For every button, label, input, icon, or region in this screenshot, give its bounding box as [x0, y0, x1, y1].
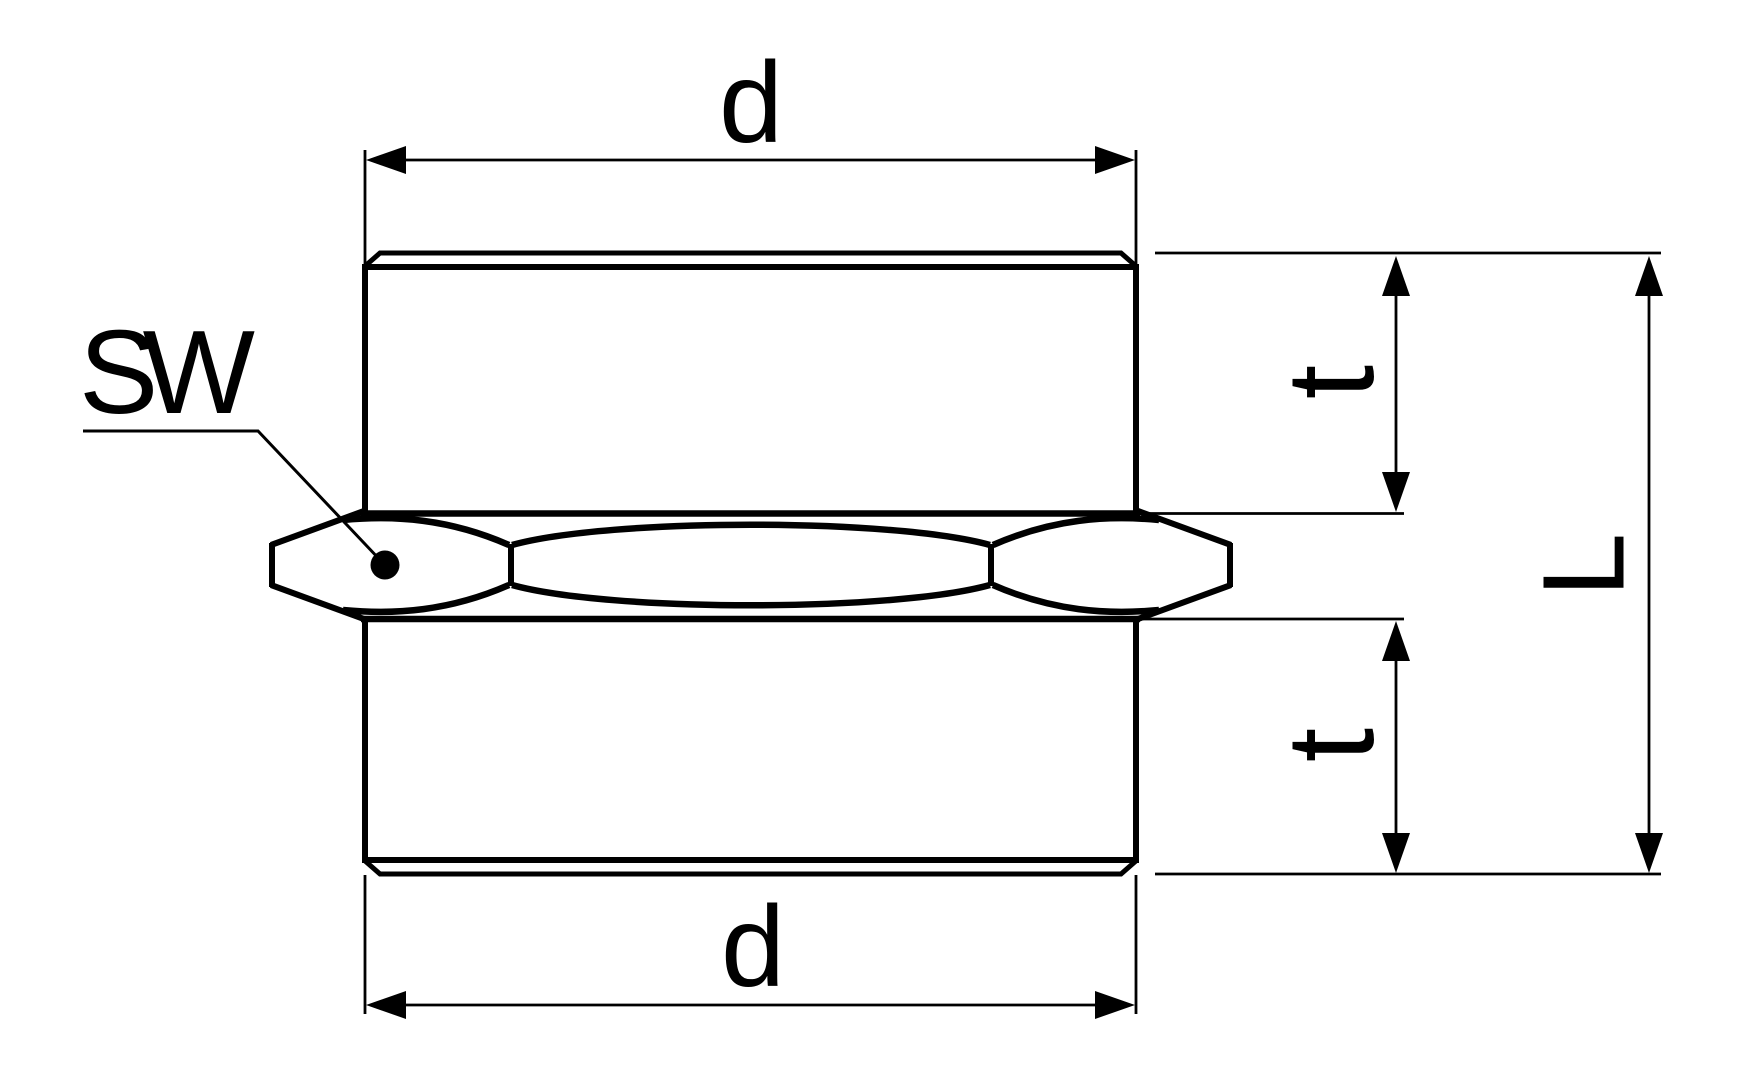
hex nut: right tip flat — [1227, 543, 1233, 587]
extension line bottom (L shared, at bottom face) — [1155, 873, 1661, 876]
hex nut: left face boundary vertical — [508, 544, 514, 586]
hex nut: left bottom chamfer diagonal — [271, 585, 364, 619]
dimension L: down arrowhead — [1635, 833, 1663, 873]
hex nut: left lobe bottom arc — [343, 585, 509, 612]
hex nut: right top chamfer diagonal — [1138, 511, 1231, 545]
dimension d (bottom): right extension line — [1135, 875, 1138, 1014]
svg-text:L: L — [1519, 533, 1649, 598]
dimension d (bottom): right arrowhead — [1095, 991, 1135, 1019]
extension line top (L/t shared, at top face) — [1155, 252, 1661, 255]
extension line at nut bottom — [1143, 618, 1404, 621]
hex nut: right lobe bottom arc — [993, 585, 1159, 612]
hex nut: top junction line — [361, 510, 1140, 517]
hex nut: left lobe top arc — [343, 518, 509, 545]
hex nut: left tip flat — [269, 543, 275, 587]
dimension t (top): up arrowhead — [1382, 256, 1410, 296]
dimension t (top): down arrowhead — [1382, 472, 1410, 512]
hex nut: bottom junction line — [361, 616, 1140, 623]
dimension t (bottom): down arrowhead — [1382, 833, 1410, 873]
svg-text:t: t — [1262, 365, 1400, 399]
hex nut: right lobe top arc — [993, 518, 1159, 545]
dimension d (top): right arrowhead — [1095, 146, 1135, 174]
dimension d (top): left extension line — [364, 150, 367, 266]
dimension t (bottom): dimension line — [1395, 655, 1398, 840]
dimension d (top): dimension line — [380, 159, 1120, 162]
body outline: lower barrel right edge — [1133, 618, 1139, 862]
top end face line (inset, chamfered) — [364, 253, 1137, 267]
bottom end face line (inset, chamfered) — [364, 860, 1137, 874]
hex nut: middle face top arc — [512, 525, 990, 545]
svg-text:d: d — [721, 883, 785, 1011]
svg-text:SW: SW — [79, 306, 255, 439]
hex nut: right bottom chamfer diagonal — [1138, 585, 1231, 619]
dimension d (top): right extension line — [1135, 150, 1138, 266]
hex nut: left top chamfer diagonal — [271, 511, 364, 545]
hex nut: middle face bottom arc — [512, 585, 990, 605]
dimension L: up arrowhead — [1635, 256, 1663, 296]
bottom corner line (full width) — [362, 857, 1139, 863]
dimension d (bottom): dimension line — [380, 1004, 1120, 1007]
extension line at nut top — [1143, 512, 1404, 515]
body outline: upper barrel left edge — [362, 264, 368, 512]
dimension d (bottom): left extension line — [364, 875, 367, 1014]
top corner line (full width) — [362, 264, 1139, 270]
body outline: upper barrel right edge — [1133, 264, 1139, 512]
dimension t (top): dimension line — [1395, 290, 1398, 475]
SW leader line — [83, 431, 382, 562]
dimension t (bottom): up arrowhead — [1382, 621, 1410, 661]
SW leader dot — [371, 551, 400, 580]
dimension d (top): left arrowhead — [366, 146, 406, 174]
dimension d (bottom): left arrowhead — [366, 991, 406, 1019]
body outline: lower barrel left edge — [362, 618, 368, 862]
svg-text:d: d — [719, 39, 783, 167]
dimension L: dimension line — [1648, 290, 1651, 838]
svg-text:t: t — [1262, 728, 1400, 762]
hex nut: right face boundary vertical — [988, 544, 994, 586]
